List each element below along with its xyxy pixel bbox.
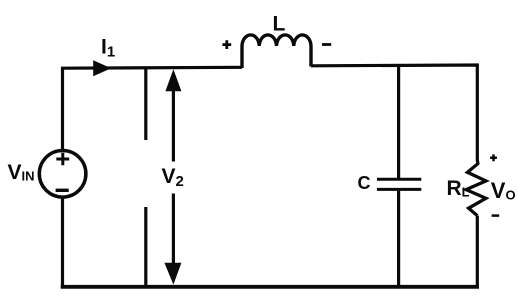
V2 measurement arrow up	[165, 69, 181, 161]
wire bottom rail	[61, 285, 479, 289]
inductor L	[242, 35, 311, 68]
resistor minus sign	[492, 214, 500, 217]
inductor plus sign	[222, 40, 231, 49]
capacitor C plates	[377, 179, 421, 189]
source plus sign	[56, 153, 69, 165]
resistor plus sign	[490, 154, 497, 161]
source minus sign	[56, 189, 69, 192]
svg-text:C: C	[358, 173, 371, 193]
svg-text:L: L	[273, 13, 286, 36]
wire top-left rail	[63, 67, 243, 150]
node stub upper (port)	[144, 68, 147, 140]
inductor minus sign	[322, 43, 331, 46]
V2 measurement arrow down	[164, 194, 181, 285]
wire top-right section	[311, 65, 477, 161]
wire capacitor branch upper	[397, 65, 400, 179]
node stub lower (port)	[144, 207, 147, 286]
wire left rail below source	[61, 199, 64, 289]
voltage source VIN	[39, 151, 86, 198]
resistor RL zigzag	[466, 160, 486, 216]
current arrow I1	[93, 60, 111, 76]
wire right rail below resistor	[476, 216, 479, 289]
wire capacitor branch lower	[397, 190, 400, 289]
